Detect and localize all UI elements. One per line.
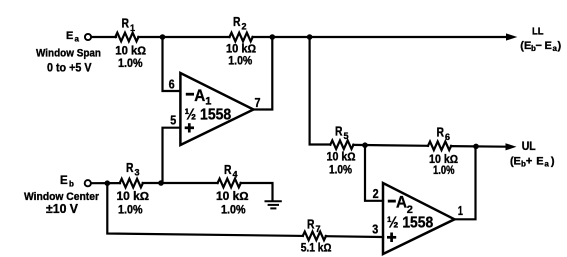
wire pin3 bbox=[326, 235, 383, 238]
svg-text:b: b bbox=[69, 180, 74, 189]
resistor R7 bbox=[303, 232, 326, 241]
svg-text:): ) bbox=[558, 40, 562, 52]
svg-text:0 to +5 V: 0 to +5 V bbox=[47, 60, 92, 74]
op-amp A2 minus sign bbox=[388, 200, 396, 203]
svg-text:10 kΩ: 10 kΩ bbox=[327, 152, 356, 164]
svg-text:R: R bbox=[224, 163, 232, 177]
svg-text:Window Span: Window Span bbox=[36, 47, 101, 59]
svg-text:E: E bbox=[514, 156, 521, 168]
svg-text:10 kΩ: 10 kΩ bbox=[216, 191, 249, 203]
wire bbox=[143, 182, 218, 184]
wire A2 output bbox=[455, 146, 476, 219]
svg-text:1.0%: 1.0% bbox=[228, 56, 252, 68]
wire bbox=[451, 145, 505, 148]
svg-text:1: 1 bbox=[130, 23, 135, 33]
resistor R4 bbox=[218, 179, 241, 188]
svg-text:2: 2 bbox=[242, 22, 247, 32]
junction node B to pin2 bbox=[362, 142, 368, 148]
svg-text:3: 3 bbox=[135, 168, 140, 178]
svg-text:a: a bbox=[75, 35, 80, 44]
wire bbox=[92, 36, 116, 38]
junction Eb node bbox=[105, 180, 111, 186]
svg-text:A: A bbox=[194, 87, 205, 105]
resistor R5 bbox=[330, 140, 353, 149]
svg-text:1.0%: 1.0% bbox=[118, 205, 143, 217]
node A junction bbox=[160, 34, 166, 40]
svg-text:2: 2 bbox=[373, 187, 379, 201]
ground bbox=[266, 201, 281, 208]
junction A1 output to top rail bbox=[270, 34, 276, 40]
wire A1 output bbox=[254, 37, 273, 110]
label UL formula bbox=[510, 156, 555, 169]
svg-text:): ) bbox=[551, 156, 555, 168]
svg-text:LL: LL bbox=[532, 26, 544, 38]
resistor R2 bbox=[230, 33, 253, 42]
junction A2 output node bbox=[473, 144, 479, 150]
LL arrowhead bbox=[506, 33, 517, 40]
svg-text:10 kΩ: 10 kΩ bbox=[226, 44, 256, 56]
svg-text:R: R bbox=[437, 126, 445, 140]
wire pin6 bbox=[163, 37, 181, 91]
svg-text:A: A bbox=[396, 194, 407, 212]
svg-text:R: R bbox=[126, 161, 134, 175]
op-amp A1 plus sign bbox=[185, 123, 194, 132]
wire Eb down to bottom rail bbox=[107, 183, 302, 236]
wire top rail down to R5 rail bbox=[310, 37, 331, 145]
svg-text:3: 3 bbox=[372, 222, 378, 236]
svg-text:7: 7 bbox=[255, 96, 261, 110]
resistor R6 bbox=[428, 142, 451, 151]
svg-text:1.0%: 1.0% bbox=[221, 205, 246, 217]
junction top rail to R5 branch bbox=[307, 34, 313, 40]
svg-text:E: E bbox=[545, 40, 552, 52]
junction R3-R4 node bbox=[158, 180, 164, 186]
wire pin2 bbox=[365, 145, 383, 201]
resistor R1 bbox=[115, 33, 138, 42]
svg-text:4: 4 bbox=[233, 170, 238, 180]
op-amp A2 bbox=[383, 183, 455, 254]
UL arrowhead bbox=[506, 143, 517, 150]
svg-text:10 kΩ: 10 kΩ bbox=[117, 191, 150, 203]
svg-text:1.0%: 1.0% bbox=[118, 58, 143, 70]
svg-text:a: a bbox=[544, 160, 549, 169]
svg-text:1.0%: 1.0% bbox=[329, 165, 352, 177]
wire bbox=[353, 144, 428, 147]
svg-text:R: R bbox=[335, 125, 343, 139]
svg-text:E: E bbox=[60, 175, 68, 187]
svg-text:5: 5 bbox=[344, 131, 349, 141]
wire bbox=[138, 36, 229, 38]
terminal Ea bbox=[85, 34, 91, 40]
svg-text:5: 5 bbox=[170, 114, 176, 128]
svg-text:10 kΩ: 10 kΩ bbox=[115, 46, 146, 58]
label LL formula bbox=[520, 40, 561, 53]
svg-text:+: + bbox=[526, 156, 532, 168]
svg-text:6: 6 bbox=[169, 78, 175, 92]
op-amp A1 bbox=[180, 73, 253, 145]
svg-text:7: 7 bbox=[316, 224, 321, 234]
svg-text:E: E bbox=[536, 156, 543, 168]
wire to ground bbox=[241, 183, 273, 200]
wire pin5 bbox=[163, 128, 181, 183]
svg-text:1: 1 bbox=[458, 204, 463, 218]
svg-text:½ 1558: ½ 1558 bbox=[185, 106, 232, 123]
terminal Eb bbox=[85, 180, 91, 186]
svg-text:UL: UL bbox=[522, 141, 536, 153]
svg-text:R: R bbox=[307, 218, 315, 232]
wire bbox=[253, 36, 506, 38]
svg-text:E: E bbox=[66, 30, 73, 42]
svg-text:−: − bbox=[536, 40, 542, 52]
op-amp A1 minus sign bbox=[186, 93, 194, 96]
svg-text:R: R bbox=[233, 15, 241, 29]
svg-text:5.1 kΩ: 5.1 kΩ bbox=[301, 243, 332, 255]
op-amp A2 plus sign bbox=[387, 233, 396, 243]
svg-text:6: 6 bbox=[445, 132, 450, 142]
svg-text:½ 1558: ½ 1558 bbox=[387, 215, 433, 232]
svg-text:1.0%: 1.0% bbox=[433, 165, 455, 177]
resistor R3 bbox=[120, 179, 143, 188]
wire bbox=[91, 182, 120, 184]
svg-text:±10 V: ±10 V bbox=[46, 202, 79, 216]
svg-text:R: R bbox=[122, 17, 130, 31]
